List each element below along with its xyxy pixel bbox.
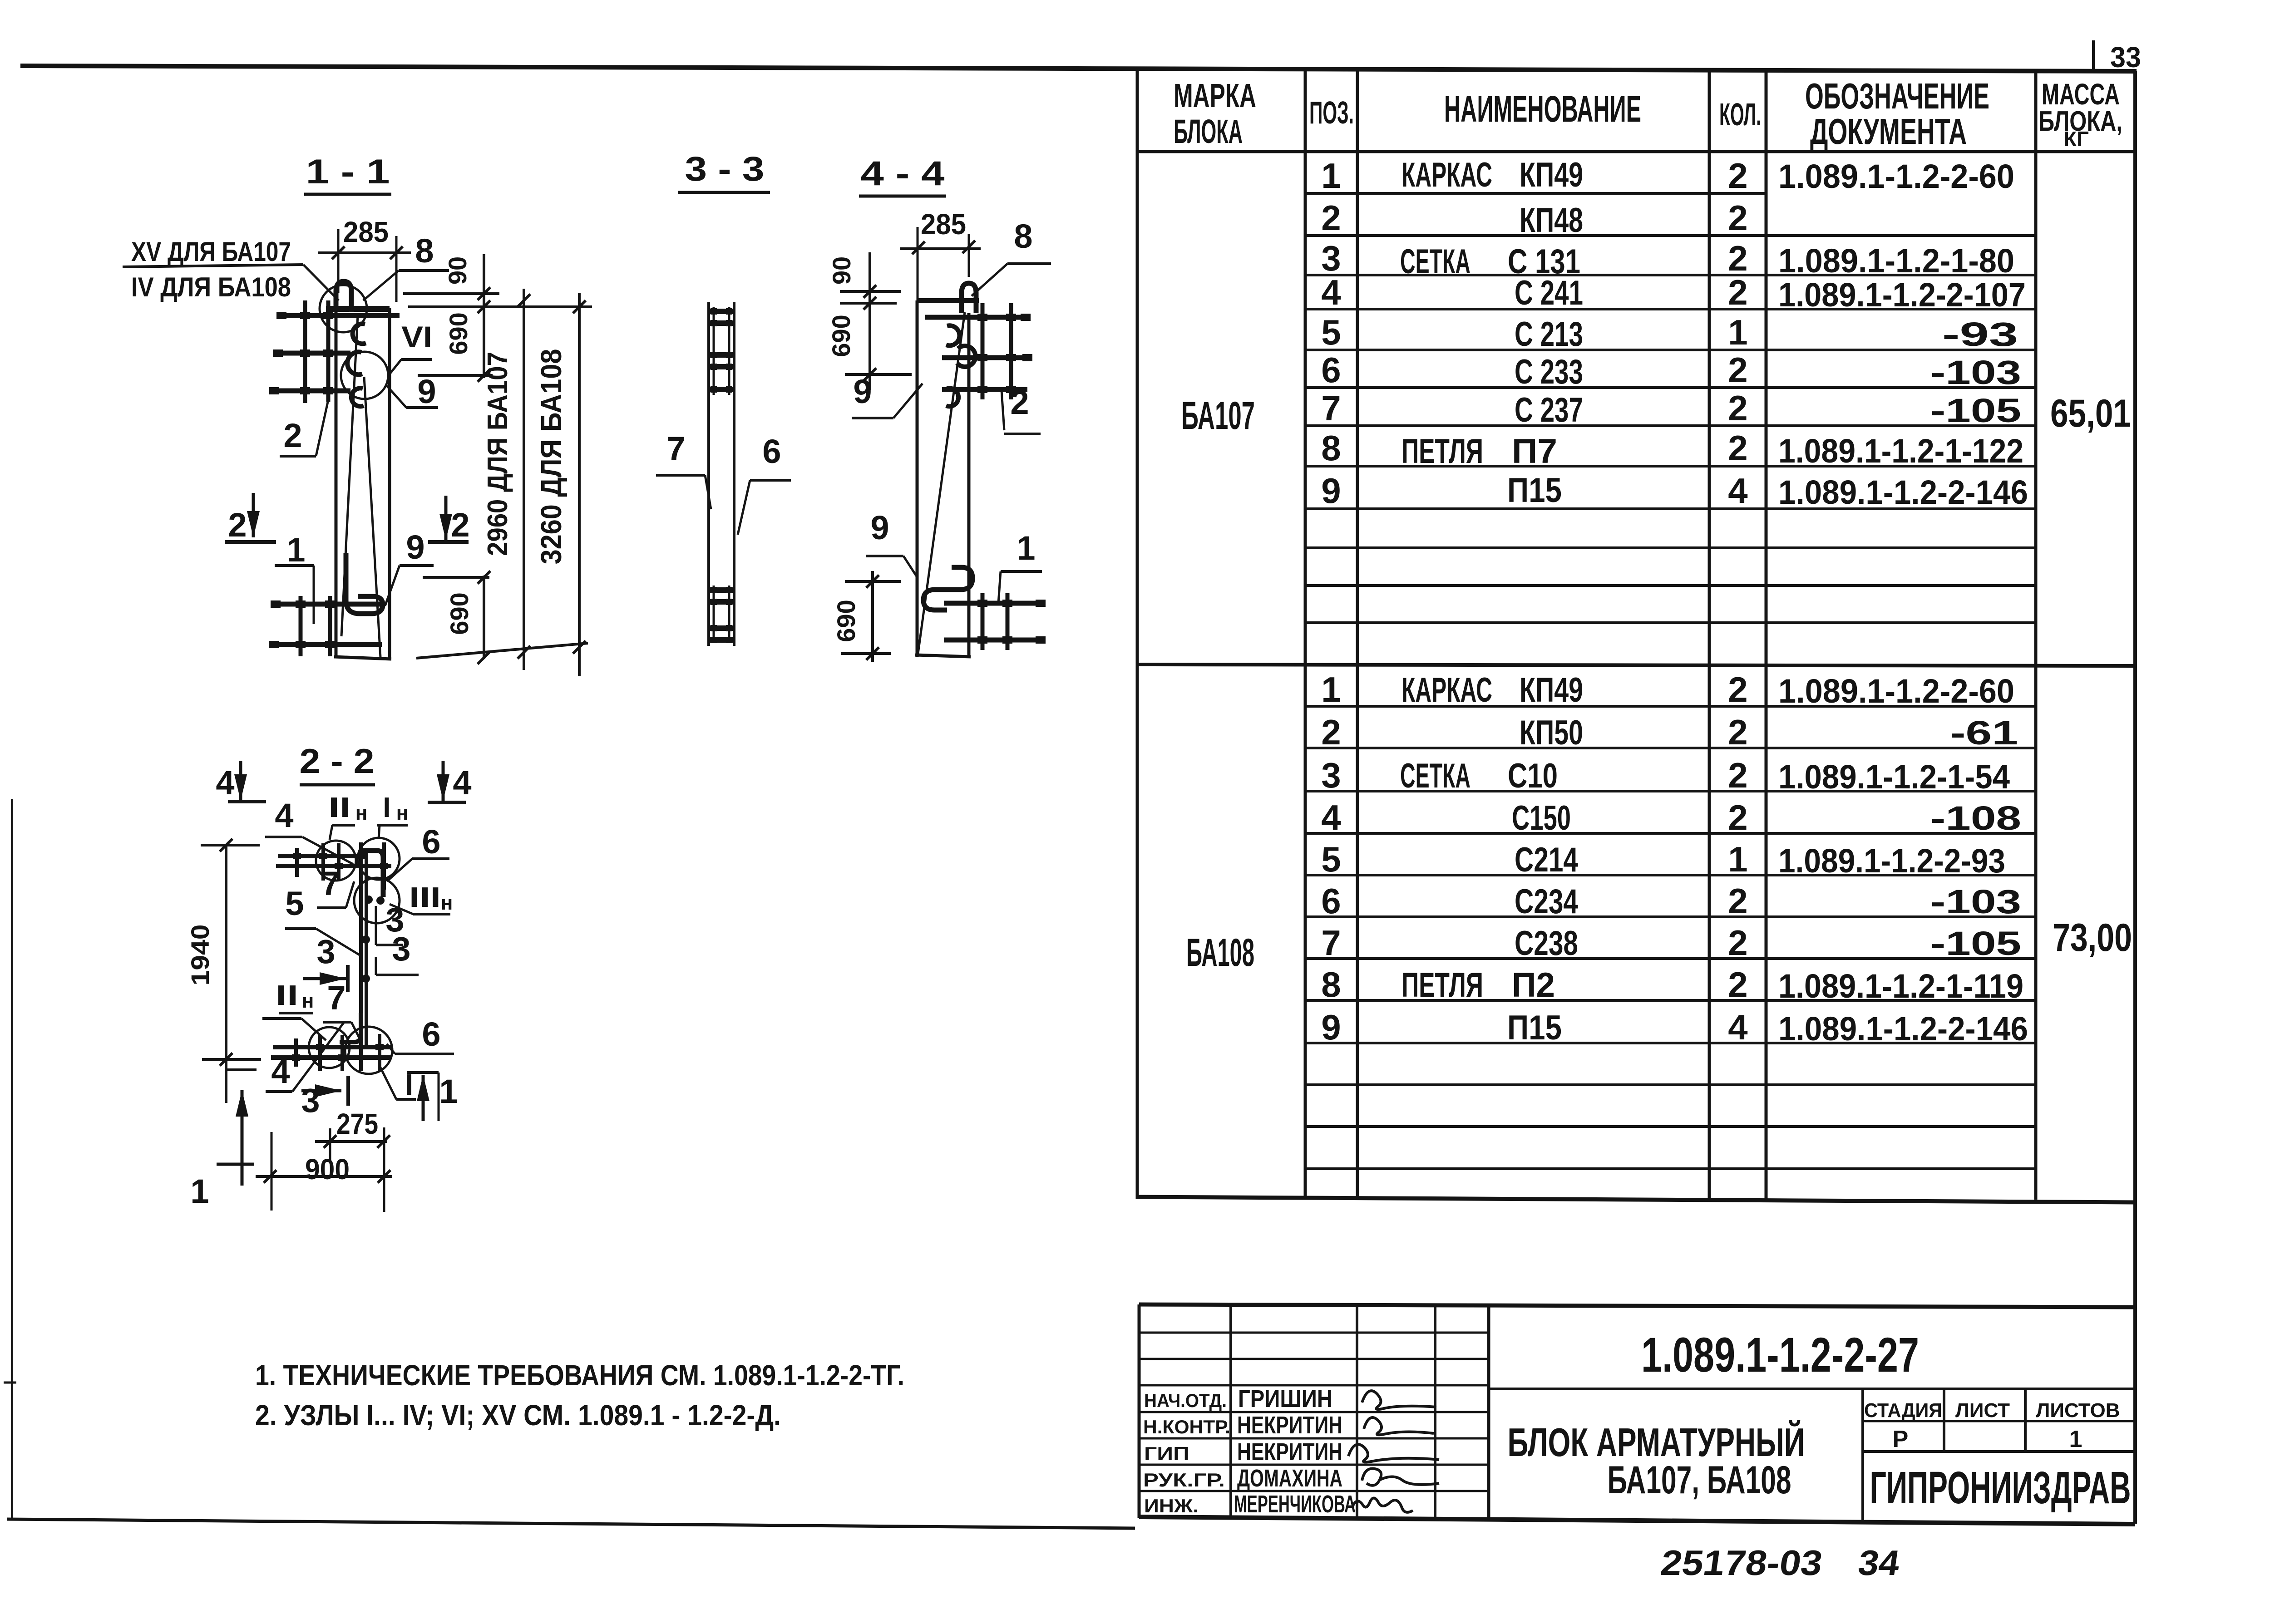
svg-text:II: II [328, 792, 351, 823]
mesh bars top (1-1) [280, 313, 400, 318]
svg-text:3 - 3: 3 - 3 [685, 150, 765, 188]
node circles (2-2 top) [316, 841, 356, 881]
svg-text:4: 4 [1321, 272, 1341, 312]
svg-text:1: 1 [1728, 312, 1747, 352]
svg-text:1 - 1: 1 - 1 [306, 153, 390, 191]
svg-text:-105: -105 [1930, 392, 2021, 429]
svg-text:КП49: КП49 [1520, 156, 1583, 194]
svg-text:1: 1 [1728, 839, 1747, 879]
node circles (2-2 bottom) [309, 1027, 350, 1068]
sheet count 34 [1856, 1543, 1903, 1583]
svg-text:С150: С150 [1512, 799, 1571, 837]
svg-text:690: 690 [444, 312, 473, 354]
svg-text:2: 2 [1728, 965, 1747, 1004]
svg-text:СТАДИЯ: СТАДИЯ [1864, 1399, 1942, 1422]
bottom extension line (1-1) [416, 643, 588, 658]
svg-text:1: 1 [1321, 669, 1341, 709]
svg-text:2: 2 [1728, 797, 1747, 837]
svg-text:9: 9 [1321, 1007, 1341, 1047]
svg-text:XV ДЛЯ БА107: XV ДЛЯ БА107 [131, 236, 291, 267]
bent bar Г (2-2) and main vertical bar [362, 851, 383, 897]
mesh bars bottom (4-4) [944, 601, 1044, 606]
svg-text:2: 2 [1728, 428, 1747, 468]
svg-text:4 - 4: 4 - 4 [861, 154, 945, 193]
svg-text:Н.КОНТР.: Н.КОНТР. [1143, 1416, 1230, 1437]
svg-text:НАИМЕНОВАНИЕ: НАИМЕНОВАНИЕ [1444, 89, 1641, 130]
svg-text:ЛИСТ: ЛИСТ [1955, 1399, 2010, 1422]
svg-text:МЕРЕНЧИКОВА: МЕРЕНЧИКОВА [1234, 1491, 1356, 1518]
svg-text:П7: П7 [1512, 432, 1557, 471]
svg-text:БА108: БА108 [1186, 931, 1254, 974]
svg-text:34: 34 [1856, 1543, 1903, 1583]
leader divider [123, 265, 303, 267]
svg-text:8: 8 [1321, 428, 1341, 468]
svg-text:3260 ДЛЯ БА108: 3260 ДЛЯ БА108 [535, 349, 567, 565]
svg-text:690: 690 [832, 600, 860, 642]
svg-text:5: 5 [285, 885, 304, 922]
svg-text:2: 2 [1728, 669, 1747, 709]
panel 1-1 outline [326, 306, 390, 312]
loop П top hook (4-4) [962, 283, 976, 313]
svg-text:С 233: С 233 [1515, 353, 1583, 391]
svg-text:НАЧ.ОТД.: НАЧ.ОТД. [1144, 1390, 1227, 1411]
svg-text:3: 3 [1321, 755, 1341, 795]
hooks 9 (4-4 top) [946, 325, 959, 345]
svg-text:900: 900 [305, 1153, 350, 1186]
svg-text:7: 7 [321, 865, 340, 902]
svg-text:1.089.1-1.2-2-146: 1.089.1-1.2-2-146 [1778, 473, 2028, 511]
stadia box lines [1861, 1389, 1864, 1523]
svg-text:5: 5 [1321, 312, 1341, 352]
svg-text:1: 1 [439, 1073, 458, 1110]
stamp column lines [1229, 1305, 1232, 1518]
svg-text:90: 90 [827, 256, 856, 285]
svg-text:ГИПРОНИИЗДРАВ: ГИПРОНИИЗДРАВ [1870, 1462, 2131, 1513]
svg-text:ПОЗ.: ПОЗ. [1309, 95, 1354, 130]
title area divider [1489, 1388, 2135, 1390]
hook П15 (4-4 bottom) [923, 567, 972, 610]
svg-text:1: 1 [1017, 529, 1035, 567]
ladder rungs top (3-3) [713, 307, 715, 395]
table section divider line [1137, 664, 2135, 666]
inv number [1658, 1543, 1825, 1583]
svg-text:III: III [409, 882, 441, 913]
svg-text:ЛИСТОВ: ЛИСТОВ [2036, 1399, 2120, 1422]
page left frame line [11, 799, 13, 1519]
panel 4-4 outline [917, 298, 979, 303]
svg-text:БЛОКА: БЛОКА [1174, 113, 1243, 150]
svg-text:690: 690 [445, 592, 474, 635]
page number tick [2092, 40, 2095, 72]
svg-text:IV ДЛЯ БА108: IV ДЛЯ БА108 [131, 272, 291, 302]
table right edge / page frame continuous [2133, 71, 2137, 1524]
svg-text:1.089.1-1.2-2-107: 1.089.1-1.2-2-107 [1778, 276, 2026, 314]
svg-text:6: 6 [422, 1015, 440, 1053]
svg-text:-103: -103 [1930, 883, 2021, 920]
svg-text:2960 ДЛЯ БА107: 2960 ДЛЯ БА107 [482, 352, 513, 556]
svg-text:7: 7 [666, 430, 685, 468]
svg-text:-105: -105 [1930, 925, 2021, 962]
signatures [1362, 1391, 1436, 1409]
svg-text:9: 9 [1321, 471, 1341, 511]
svg-text:2: 2 [1728, 712, 1747, 752]
svg-text:8: 8 [1321, 965, 1341, 1004]
svg-text:3: 3 [316, 933, 335, 970]
svg-text:БА107, БА108: БА107, БА108 [1608, 1458, 1791, 1502]
svg-text:ГРИШИН: ГРИШИН [1238, 1385, 1332, 1412]
lifting loop circles (node XV/IV) [320, 285, 367, 332]
svg-text:6: 6 [422, 823, 440, 861]
svg-text:1940: 1940 [186, 925, 214, 986]
svg-text:25178-03: 25178-03 [1658, 1543, 1825, 1583]
svg-text:Р: Р [1893, 1426, 1909, 1452]
svg-text:VI: VI [401, 320, 432, 354]
mesh bars bottom (1-1) [274, 602, 385, 607]
svg-text:4: 4 [1728, 471, 1747, 511]
svg-text:КАРКАС: КАРКАС [1401, 156, 1492, 194]
svg-text:1.089.1-1.2-2-27: 1.089.1-1.2-2-27 [1641, 1327, 1919, 1382]
svg-text:2: 2 [1728, 156, 1747, 196]
title block frame [1139, 1304, 2135, 1307]
table bottom line [1137, 1197, 2135, 1202]
svg-text:4: 4 [1321, 797, 1341, 837]
svg-text:КП48: КП48 [1520, 201, 1583, 240]
svg-text:н: н [355, 802, 368, 824]
svg-text:4: 4 [453, 764, 471, 802]
svg-text:ПЕТЛЯ: ПЕТЛЯ [1401, 432, 1483, 471]
svg-text:4: 4 [216, 764, 234, 802]
hook П15 (1-1 bottom) [346, 553, 383, 614]
svg-text:1.089.1-1.2-1-80: 1.089.1-1.2-1-80 [1778, 242, 2014, 280]
svg-text:1.089.1-1.2-1-54: 1.089.1-1.2-1-54 [1778, 758, 2010, 796]
svg-text:СЕТКА: СЕТКА [1400, 757, 1471, 795]
svg-text:-108: -108 [1930, 799, 2021, 837]
panel 4-4 inner diagonal [918, 312, 965, 654]
svg-text:С234: С234 [1515, 882, 1578, 921]
svg-text:2: 2 [283, 417, 302, 454]
svg-text:3: 3 [392, 930, 410, 968]
svg-text:-93: -93 [1942, 315, 2018, 353]
loop П8 top hook [336, 281, 351, 312]
svg-text:КП49: КП49 [1520, 671, 1583, 709]
mesh bars top (4-4) [925, 315, 1027, 320]
svg-text:ПЕТЛЯ: ПЕТЛЯ [1401, 966, 1483, 1004]
svg-text:ИНЖ.: ИНЖ. [1144, 1495, 1199, 1516]
svg-text:С214: С214 [1515, 841, 1578, 879]
svg-text:С 237: С 237 [1515, 391, 1583, 429]
dim line 285 (1-1) [318, 251, 411, 254]
svg-text:I: I [383, 792, 390, 823]
svg-text:9: 9 [870, 509, 889, 546]
section cut tick [227, 1068, 257, 1071]
svg-text:285: 285 [343, 216, 389, 248]
svg-text:2: 2 [451, 506, 469, 544]
svg-text:2. УЗЛЫ I... IV; VI; XV СМ. 1: 2. УЗЛЫ I... IV; VI; XV СМ. 1.089.1 - 1.… [255, 1399, 781, 1432]
svg-text:1.089.1-1.2-2-60: 1.089.1-1.2-2-60 [1778, 157, 2014, 195]
svg-text:2 - 2: 2 - 2 [300, 742, 375, 781]
svg-text:1.089.1-1.2-2-146: 1.089.1-1.2-2-146 [1778, 1010, 2028, 1048]
svg-text:-61: -61 [1950, 714, 2018, 752]
stamp row lines [1139, 1332, 1489, 1334]
svg-text:9: 9 [406, 528, 424, 566]
svg-text:2: 2 [1728, 350, 1747, 390]
svg-text:1: 1 [2069, 1426, 2082, 1452]
table header bottom line [1137, 150, 2135, 153]
svg-text:КОЛ.: КОЛ. [1719, 97, 1761, 132]
svg-text:7: 7 [1321, 388, 1341, 428]
svg-text:7: 7 [1321, 923, 1341, 963]
svg-text:С10: С10 [1508, 757, 1558, 795]
svg-text:4: 4 [271, 1053, 290, 1090]
svg-text:НЕКРИТИН: НЕКРИТИН [1237, 1438, 1342, 1466]
panel 1-1 inner diagonals [341, 315, 358, 636]
svg-text:П2: П2 [1512, 966, 1555, 1004]
svg-text:8: 8 [415, 232, 434, 270]
svg-text:1.089.1-1.2-2-60: 1.089.1-1.2-2-60 [1778, 672, 2014, 710]
svg-text:ОБОЗНАЧЕНИЕ: ОБОЗНАЧЕНИЕ [1805, 76, 1989, 116]
svg-text:2: 2 [1728, 388, 1747, 428]
svg-text:6: 6 [1321, 350, 1341, 390]
svg-text:1.089.1-1.2-1-122: 1.089.1-1.2-1-122 [1778, 432, 2023, 470]
svg-text:73,00: 73,00 [2053, 916, 2132, 960]
mesh bars (2-2 top) [278, 854, 360, 858]
svg-text:-103: -103 [1930, 354, 2021, 391]
page bottom border line (left half) [7, 1519, 1135, 1528]
left frame tick [4, 1382, 16, 1384]
svg-text:9: 9 [417, 373, 436, 410]
svg-text:4: 4 [1728, 1007, 1747, 1047]
svg-text:БА107: БА107 [1181, 394, 1255, 438]
svg-text:КАРКАС: КАРКАС [1401, 671, 1492, 709]
svg-text:II: II [276, 980, 298, 1011]
svg-text:7: 7 [327, 979, 345, 1017]
svg-text:5: 5 [1321, 839, 1341, 879]
svg-text:2: 2 [1728, 198, 1747, 238]
hooks 9 (1-1 top) [353, 324, 366, 344]
svg-text:СЕТКА: СЕТКА [1400, 242, 1471, 281]
leader line to loop [303, 265, 339, 300]
svg-text:2: 2 [1728, 881, 1747, 921]
section BA107 row lines [1305, 192, 1766, 195]
svg-text:2: 2 [1321, 712, 1341, 752]
svg-text:МАРКА: МАРКА [1174, 77, 1256, 114]
long dim line 2960 [523, 289, 525, 670]
svg-text:6: 6 [1321, 881, 1341, 921]
svg-text:2: 2 [1010, 384, 1029, 421]
svg-text:1: 1 [190, 1172, 209, 1210]
panel 3-3 outline [707, 302, 710, 646]
dim line 285 (4-4) [900, 247, 981, 250]
svg-text:2: 2 [1728, 755, 1747, 795]
svg-text:1.089.1-1.2-2-93: 1.089.1-1.2-2-93 [1778, 842, 2005, 880]
svg-text:1: 1 [1321, 156, 1341, 196]
svg-text:285: 285 [921, 208, 966, 241]
svg-text:33: 33 [2110, 41, 2141, 74]
page top border line [20, 66, 2137, 71]
svg-text:1. ТЕХНИЧЕСКИЕ ТРЕБОВАНИЯ СМ: 1. ТЕХНИЧЕСКИЕ ТРЕБОВАНИЯ СМ. 1.089.1-1.… [255, 1359, 904, 1392]
svg-text:НЕКРИТИН: НЕКРИТИН [1237, 1412, 1342, 1439]
svg-text:4: 4 [275, 797, 293, 834]
svg-text:275: 275 [336, 1107, 378, 1140]
svg-text:65,01: 65,01 [2050, 392, 2131, 435]
svg-text:н: н [396, 802, 409, 824]
table outer frame verticals [1136, 68, 1139, 1199]
svg-text:КП50: КП50 [1520, 714, 1583, 752]
svg-text:КГ: КГ [2063, 127, 2089, 151]
svg-text:ДОМАХИНА: ДОМАХИНА [1237, 1465, 1342, 1492]
svg-text:ГИП: ГИП [1144, 1443, 1189, 1464]
svg-text:П15: П15 [1507, 1009, 1562, 1047]
svg-text:РУК.ГР.: РУК.ГР. [1143, 1469, 1225, 1491]
svg-text:8: 8 [1014, 217, 1032, 255]
svg-text:ДОКУМЕНТА: ДОКУМЕНТА [1810, 111, 1967, 152]
svg-text:90: 90 [443, 256, 472, 285]
mesh bars (2-2 bottom) [273, 1045, 391, 1049]
ladder rungs bottom (3-3) [713, 586, 715, 642]
long dim line 3260 [578, 293, 581, 676]
svg-text:1.089.1-1.2-1-119: 1.089.1-1.2-1-119 [1778, 967, 2023, 1005]
svg-text:н: н [441, 892, 453, 914]
svg-text:С 241: С 241 [1515, 274, 1583, 312]
svg-text:С238: С238 [1515, 924, 1578, 963]
svg-text:н: н [302, 990, 314, 1012]
svg-text:690: 690 [827, 315, 855, 357]
svg-text:2: 2 [1321, 198, 1341, 238]
svg-text:2: 2 [228, 506, 247, 544]
section BA108 row lines [1305, 705, 2036, 708]
svg-text:С 213: С 213 [1515, 315, 1583, 354]
svg-text:1: 1 [286, 531, 305, 569]
svg-text:6: 6 [762, 433, 781, 470]
svg-text:2: 2 [1728, 272, 1747, 312]
svg-text:П15: П15 [1507, 471, 1562, 510]
svg-text:2: 2 [1728, 923, 1747, 963]
